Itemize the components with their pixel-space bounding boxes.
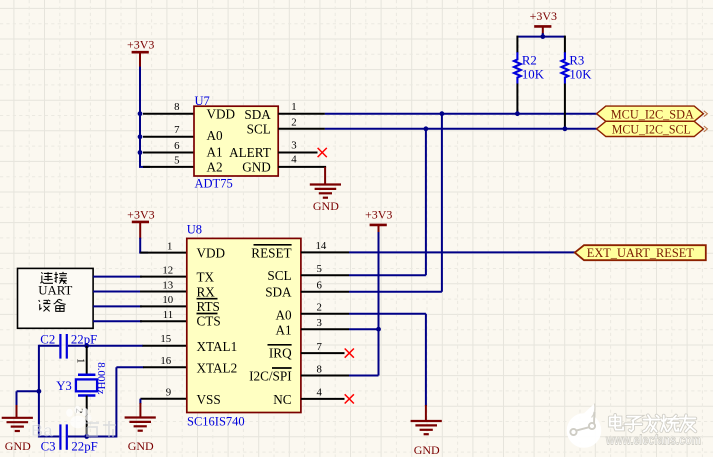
wire net EXT_UART_RESET: [349, 251, 575, 253]
port EXT_UART_RESET: [575, 245, 706, 260]
wire U7 pin 6 A1 stub: [143, 152, 195, 154]
watermark elecfans chinese text: [610, 415, 696, 432]
svg-text:SC16IS740: SC16IS740: [187, 415, 245, 429]
svg-text:2: 2: [291, 116, 296, 128]
wire U8 pin 12 TX stub: [140, 276, 187, 278]
svg-text:C3: C3: [41, 440, 56, 454]
svg-text:A2: A2: [207, 159, 223, 174]
wire C3 right to XTAL2: [68, 367, 144, 437]
wire R3 top pin: [564, 36, 566, 53]
wire U7 pin 7 A0 stub: [143, 136, 195, 138]
wire U7 pin 2 SCL stub: [278, 128, 325, 130]
svg-text:R3: R3: [569, 54, 584, 68]
UART box text line1 lianjie: [41, 272, 67, 284]
wire U7 pin 1 SDA stub: [278, 113, 325, 115]
transistor U8 SC16IS740 body: [187, 238, 301, 412]
wire U7 pin 4 GND stub: [278, 166, 326, 168]
U7 pin labels: [207, 107, 272, 175]
svg-text:CTS: CTS: [197, 313, 221, 328]
svg-text:Y3: Y3: [56, 379, 72, 393]
crystal Y3: [76, 375, 97, 396]
svg-text:SCL: SCL: [247, 121, 271, 136]
watermark elecfans logo: [567, 404, 602, 448]
svg-text:GND: GND: [5, 439, 31, 453]
watermark baidu paw: [66, 406, 91, 428]
power +3V3 (U8 VDD): [127, 207, 154, 238]
svg-text:+3V3: +3V3: [127, 207, 154, 221]
svg-text:6: 6: [317, 280, 323, 292]
resistor R3: [562, 52, 569, 83]
wire +3V3 to U8 pin 1: [139, 238, 148, 253]
svg-text:7: 7: [317, 341, 323, 353]
svg-text:11: 11: [163, 309, 173, 321]
svg-text:13: 13: [162, 279, 173, 291]
node junction A0: [138, 134, 143, 139]
crystal Y3 top lead pin 1: [86, 346, 88, 375]
wire U8 pin 14 RESET stub: [301, 251, 349, 253]
svg-text:www.elecfans.com: www.elecfans.com: [605, 433, 701, 448]
wire U8 pin 16 XTAL2 stub: [143, 366, 187, 368]
svg-text:3: 3: [317, 317, 322, 329]
svg-text:XTAL1: XTAL1: [197, 339, 238, 354]
wire U8 pin 7 IRQ stub: [301, 352, 345, 354]
svg-text:UART: UART: [38, 283, 72, 297]
U7 pin numbers: [174, 101, 297, 166]
svg-text:GND: GND: [242, 159, 271, 174]
svg-text:A0: A0: [275, 308, 292, 323]
svg-text:MCU_I2C_SCL: MCU_I2C_SCL: [612, 122, 691, 137]
wire net MCU_I2C_SDA horizontal: [325, 113, 597, 115]
svg-text:10K: 10K: [522, 68, 545, 82]
wire UART box RTS: [93, 305, 142, 307]
wire A1 to +3V3 vertical: [349, 328, 379, 330]
wire U8 pin 11 CTS stub: [140, 320, 187, 322]
svg-text:IRQ: IRQ: [269, 345, 292, 360]
wire U8 pin 2 A0 stub: [301, 313, 349, 315]
svg-text:1: 1: [291, 101, 296, 113]
svg-text:+3V3: +3V3: [365, 207, 392, 221]
svg-text:XTAL2: XTAL2: [197, 361, 238, 376]
wire net MCU_I2C_SCL horizontal: [325, 128, 597, 130]
svg-text:SCL: SCL: [267, 268, 291, 283]
power +3V3 (U7 supply): [127, 38, 154, 68]
wire U8 pin 13 RX stub: [140, 291, 187, 293]
node junction R3-SCL: [563, 126, 568, 131]
svg-text:5: 5: [317, 263, 322, 275]
svg-text:C2: C2: [40, 332, 55, 346]
svg-text:1: 1: [75, 358, 86, 363]
svg-text:NC: NC: [273, 392, 292, 407]
node junction VDD: [138, 111, 143, 116]
svg-text:6: 6: [174, 140, 180, 152]
svg-text:ADT75: ADT75: [195, 177, 233, 191]
wire U8 pin 4 NC stub: [301, 398, 345, 400]
power +3V3 (U8 A1,I2C/SPI select): [365, 207, 392, 233]
wire U8 pin 6 SDA stub: [301, 291, 349, 293]
node junction A1: [138, 150, 143, 155]
UART box text line3 shebei: [39, 299, 66, 311]
wire +3V3 down to A1 and I2C/SPI: [349, 232, 379, 376]
svg-text:A0: A0: [207, 128, 224, 143]
UART device box: [18, 268, 94, 328]
node junction SDA drop: [440, 111, 445, 116]
svg-text:22pF: 22pF: [71, 440, 97, 454]
svg-text:SDA: SDA: [265, 285, 292, 300]
svg-text:+3V3: +3V3: [530, 9, 557, 23]
svg-text:12: 12: [162, 264, 173, 276]
wire R2 top pin: [516, 36, 518, 53]
wire U8 pin 15 XTAL1 stub: [143, 345, 188, 347]
svg-text:I2C/SPI: I2C/SPI: [249, 369, 292, 384]
wire UART box RX: [93, 291, 142, 293]
wire R3 bottom pin: [564, 84, 566, 129]
svg-text:GND: GND: [313, 199, 339, 213]
ground GND (A0): [411, 405, 442, 457]
svg-text:TX: TX: [197, 269, 215, 284]
svg-text:EXT_UART_RESET: EXT_UART_RESET: [587, 245, 694, 260]
wire left vertical C2-C3: [38, 345, 40, 438]
node junction GND branch: [37, 389, 42, 394]
svg-text:RTS: RTS: [197, 299, 220, 314]
port MCU_I2C_SDA: [597, 106, 708, 121]
svg-text:8.00Hz: 8.00Hz: [95, 362, 107, 394]
wire U8 pin 3 A1 stub: [301, 328, 349, 330]
node junction Y3-C3: [84, 434, 89, 439]
svg-text:GND: GND: [414, 443, 440, 457]
svg-text:10: 10: [162, 294, 173, 306]
svg-text:1: 1: [167, 240, 172, 252]
ground GND (left): [2, 405, 33, 453]
wire A0 to ground: [349, 314, 426, 406]
wire R2 bottom pin: [516, 84, 518, 114]
wire U7 pin 3 ALERT stub: [278, 152, 317, 154]
svg-text:8: 8: [174, 101, 179, 113]
port MCU_I2C_SCL: [597, 121, 708, 136]
capacitor C3: [60, 424, 66, 449]
svg-text:GND: GND: [128, 439, 154, 453]
no-connect X on U8 pin 7: [345, 349, 354, 358]
wire +3V3 to resistor tops: [517, 33, 565, 37]
svg-text:SDA: SDA: [244, 107, 271, 122]
svg-text:R2: R2: [522, 54, 537, 68]
svg-text:A1: A1: [207, 145, 223, 160]
svg-text:8: 8: [317, 363, 322, 375]
svg-text:16: 16: [160, 355, 171, 367]
wire U8 pin 1 VDD stub: [140, 252, 187, 254]
svg-text:+3V3: +3V3: [127, 38, 154, 52]
svg-text:VDD: VDD: [207, 107, 236, 122]
svg-text:VSS: VSS: [197, 392, 221, 407]
U8 right pin numbers: [316, 240, 327, 399]
svg-text:5: 5: [174, 154, 179, 166]
no-connect X on U8 pin 4: [345, 394, 354, 403]
svg-text:ALERT: ALERT: [229, 145, 271, 160]
node junction +3V3 split: [540, 34, 545, 39]
svg-text:Ba: Ba: [31, 421, 53, 440]
svg-text:RX: RX: [197, 284, 216, 299]
ground GND (VSS): [125, 399, 156, 453]
svg-text:7: 7: [174, 124, 180, 136]
wire C3 left: [39, 436, 59, 438]
node junction R2-SDA: [515, 111, 520, 116]
wire SCL vertical drop to U8: [349, 129, 426, 275]
power +3V3 (pull-ups): [530, 9, 557, 34]
svg-text:MCU_I2C_SDA: MCU_I2C_SDA: [611, 106, 695, 121]
U8 right pin labels: [249, 245, 292, 407]
resistor R2: [514, 52, 521, 83]
svg-text:RESET: RESET: [251, 245, 291, 260]
svg-text:15: 15: [160, 333, 171, 345]
wire U8 pin 10 RTS stub: [140, 305, 187, 307]
svg-text:A1: A1: [275, 323, 291, 338]
capacitor C2: [60, 334, 66, 359]
svg-text:VDD: VDD: [197, 245, 226, 260]
ground GND (U7 pin 4): [310, 167, 341, 213]
op-amp U7 ADT75 body: [194, 106, 278, 176]
no-connect X on U7 pin 3: [318, 148, 327, 157]
U8 left pin numbers: [160, 240, 173, 398]
node junction C2-Y3-XTAL1: [84, 343, 89, 348]
svg-text:14: 14: [316, 240, 327, 252]
wire C2 left: [39, 345, 59, 347]
svg-text:9: 9: [166, 387, 171, 399]
wire C2 right to XTAL1: [68, 345, 143, 347]
U8 left pin labels: [197, 245, 238, 406]
wire U7 pin 5 A2 stub: [143, 166, 195, 168]
crystal Y3 bottom lead pin 2: [86, 396, 88, 438]
wire U8 pin 8 I2C/SPI stub: [301, 375, 349, 377]
svg-text:22pF: 22pF: [71, 332, 97, 346]
wire +3V3 bus to U7 left pins: [139, 67, 150, 167]
wire U8 pin 5 SCL stub: [301, 274, 349, 276]
node junction SCL drop: [424, 126, 429, 131]
svg-text:3: 3: [291, 139, 296, 151]
svg-text:2: 2: [317, 302, 322, 314]
svg-text:U8: U8: [187, 223, 202, 237]
wire UART box TX: [93, 276, 142, 278]
svg-text:4: 4: [291, 154, 297, 166]
svg-text:4: 4: [317, 387, 323, 399]
wire UART box CTS: [93, 320, 142, 322]
wire U8 pin 9 VSS stub: [140, 398, 187, 400]
wire U7 pin 8 VDD stub: [143, 113, 195, 115]
watermark baidu baike: [31, 421, 116, 440]
wire branch to GND left: [17, 391, 39, 406]
wire SDA vertical drop to U8: [349, 114, 442, 292]
node junction A1 select: [376, 327, 381, 332]
svg-text:10K: 10K: [569, 68, 592, 82]
